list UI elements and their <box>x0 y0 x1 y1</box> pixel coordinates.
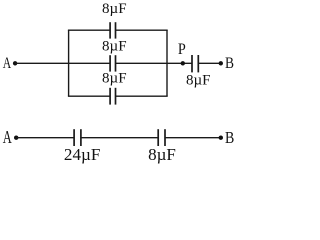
node B terminal dot (top circuit) <box>219 61 223 65</box>
wire: box top edge left segment <box>68 29 110 31</box>
svg-text:8µF: 8µF <box>148 145 176 164</box>
wire C4 to B <box>198 62 221 64</box>
wire middle branch right of C2 <box>116 62 193 64</box>
svg-text:B: B <box>225 128 234 147</box>
node A terminal dot (bottom circuit) <box>14 136 18 140</box>
wire A to middle capacitor <box>15 62 110 64</box>
svg-text:8µF: 8µF <box>102 39 127 55</box>
node B terminal dot (bottom circuit) <box>219 136 223 140</box>
capacitor C3 (bottom branch) plates <box>110 88 115 105</box>
svg-text:8µF: 8µF <box>186 73 211 89</box>
svg-text:8µF: 8µF <box>102 1 127 17</box>
svg-text:8µF: 8µF <box>102 70 127 86</box>
node A terminal dot <box>13 61 17 65</box>
wire A to C5 <box>16 137 74 139</box>
capacitor C4 (series) plates <box>192 55 198 72</box>
svg-text:24µF: 24µF <box>64 145 101 164</box>
svg-text:P: P <box>178 41 186 58</box>
wire: box bottom edge right segment <box>116 95 168 97</box>
wire: box top edge right segment <box>116 29 168 31</box>
svg-text:A: A <box>3 55 12 72</box>
wire: box bottom edge left segment <box>68 95 110 97</box>
node P dot <box>181 61 185 65</box>
svg-text:B: B <box>225 55 234 72</box>
parallel box left edge <box>68 30 70 96</box>
svg-text:A: A <box>3 127 12 147</box>
capacitor C1 (top branch) plates <box>110 22 115 38</box>
capacitor C2 (middle branch) plates <box>110 55 115 71</box>
capacitor C6 plates <box>158 129 165 146</box>
capacitor C5 plates <box>74 129 81 146</box>
wire C5 to C6 <box>81 137 158 139</box>
parallel box right edge <box>166 30 168 96</box>
wire C6 to B <box>165 137 221 139</box>
